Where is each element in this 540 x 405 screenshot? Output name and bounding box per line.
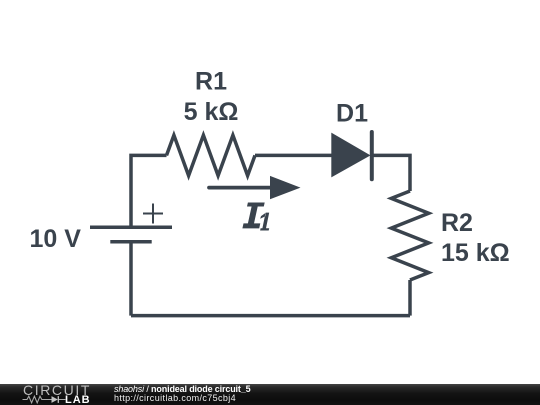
diode D1 anode triangle [331, 133, 370, 178]
CircuitLab logo wordmark CIRCUIT [23, 385, 91, 396]
wire bottom [131, 314, 410, 318]
footer caption author / title [114, 385, 250, 394]
svg-text:10 V: 10 V [30, 225, 82, 253]
current arrow I1 head [270, 176, 301, 199]
CircuitLab logo symbol row (resistor, diode) [22, 395, 68, 404]
resistor R1 [167, 135, 256, 175]
current arrow I1 shaft [209, 186, 272, 190]
label I1 (italic capital I drawn as slab glyph) [242, 203, 264, 229]
footer bar [0, 384, 540, 405]
battery V1 negative plate [110, 240, 151, 244]
svg-text:15 kΩ: 15 kΩ [441, 239, 510, 267]
label I1 subscript 1 (drawn) [260, 213, 269, 231]
wire R1 to D1 anode [255, 154, 332, 158]
wire left rail upper (battery + to top-left corner to R1) [131, 155, 167, 227]
svg-text:D1: D1 [336, 100, 368, 128]
diode D1 cathode bar [370, 132, 374, 179]
footer caption url [114, 394, 236, 403]
svg-text:R2: R2 [441, 209, 473, 237]
resistor R2 [391, 191, 428, 280]
wire right rail lower [408, 280, 412, 316]
battery plus sign [143, 204, 163, 224]
svg-text:R1: R1 [195, 68, 227, 96]
CircuitLab logo wordmark LAB [65, 396, 91, 405]
wire D1 cathode to top-right corner, right rail upper [372, 155, 410, 191]
battery V1 positive plate [90, 225, 172, 229]
wire left rail lower (bottom to battery -) [129, 242, 133, 316]
svg-text:5 kΩ: 5 kΩ [184, 98, 239, 126]
